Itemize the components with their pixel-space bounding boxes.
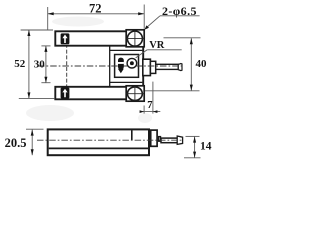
svg-text:30: 30: [34, 58, 46, 70]
svg-text:20.5: 20.5: [5, 136, 27, 150]
svg-text:72: 72: [89, 2, 102, 16]
svg-text:52: 52: [14, 58, 25, 70]
svg-text:7: 7: [147, 100, 152, 111]
svg-text:40: 40: [196, 58, 208, 70]
svg-text:14: 14: [200, 141, 212, 153]
